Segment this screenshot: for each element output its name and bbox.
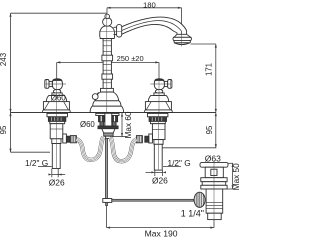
center stud left xyxy=(100,122,104,126)
dimension 180 left tick xyxy=(106,8,108,13)
faucet centerline xyxy=(106,13,108,112)
drain centerline xyxy=(213,161,215,221)
drain knurled knob xyxy=(194,192,205,207)
svg-text:180: 180 xyxy=(143,0,156,9)
drain knob knurl lines xyxy=(196,192,203,207)
dimension 250+-20 right leg xyxy=(158,62,160,78)
svg-text:Ø63: Ø63 xyxy=(205,153,221,163)
right handle neck band xyxy=(154,93,164,96)
drain locknut plate1 xyxy=(201,178,227,182)
right handle hub dark band xyxy=(155,79,164,81)
right handle base block xyxy=(145,102,171,110)
centerlines xyxy=(56,13,214,220)
dimension 95 right bottom extension xyxy=(158,147,217,149)
left valve body xyxy=(50,124,63,139)
left hose xyxy=(76,137,103,160)
drain body xyxy=(206,189,223,213)
left valve knurled nut xyxy=(48,117,65,122)
spout bell ring2 xyxy=(174,40,190,42)
svg-text:171: 171 xyxy=(204,63,213,76)
dimension Max190 right corner xyxy=(213,220,215,228)
left handle neck band xyxy=(52,93,62,96)
dimension 243 arrows xyxy=(9,13,11,112)
right valve hose nut xyxy=(136,136,142,143)
center dark band xyxy=(98,126,118,129)
left valve washer xyxy=(47,113,68,116)
dimension 180 line xyxy=(107,7,182,9)
left valve outlet dark fitting xyxy=(66,136,70,142)
left handle hub dark band xyxy=(53,79,62,81)
svg-text:95: 95 xyxy=(205,125,214,134)
spout socket xyxy=(117,25,122,37)
dimension 243 extension top xyxy=(11,12,107,14)
center stud right xyxy=(112,122,116,126)
right valve body line xyxy=(152,129,165,131)
drain upper body xyxy=(205,167,223,178)
dimension Max60 bottom extension xyxy=(112,136,127,138)
left handle hub xyxy=(52,79,62,90)
spout middle line xyxy=(122,21,182,35)
dimension 95 left line xyxy=(10,113,12,153)
label 1/2 G left leader xyxy=(38,166,52,168)
spout bell ring1 xyxy=(173,37,192,40)
left supply pipe xyxy=(52,144,60,169)
spout tip extension line xyxy=(191,43,216,45)
dimension Max50 line xyxy=(232,163,234,189)
faucet base tier1 dome xyxy=(95,92,119,101)
spout bell bottom xyxy=(174,43,190,45)
dimension O26 right line xyxy=(146,171,163,173)
faucet base tier2 xyxy=(93,101,121,106)
dimension 95 right line xyxy=(215,113,217,148)
right supply pipe xyxy=(154,144,162,170)
svg-text:Max 190: Max 190 xyxy=(145,228,178,238)
dimension 180 arrows xyxy=(107,7,182,9)
spout bell centerline xyxy=(181,32,183,47)
dimension Max50 arrows xyxy=(232,163,234,189)
spout lower wall xyxy=(122,24,177,34)
pop-up rod xyxy=(105,138,107,198)
dimension O26 right arrows xyxy=(151,171,166,173)
right valve outlet dark fitting xyxy=(145,136,149,142)
dimension 250+-20 arrows xyxy=(57,61,159,63)
pop-up rod stub xyxy=(106,202,108,205)
left handle base block xyxy=(43,102,69,110)
right valve washer xyxy=(147,113,168,116)
svg-text:Max 50: Max 50 xyxy=(232,163,241,190)
label 1/2 G right leader xyxy=(163,166,181,168)
dimension 250+-20 line xyxy=(57,61,159,63)
dimension O26 left extensions xyxy=(51,169,53,178)
dimension 250+-20 left leg xyxy=(56,62,58,78)
drain set screw xyxy=(211,169,217,175)
center stud nut right xyxy=(112,116,118,122)
left handle base top cone xyxy=(46,95,66,101)
center hose manifold xyxy=(104,133,113,136)
left handle centerline xyxy=(56,79,58,112)
right handle sphere xyxy=(155,89,162,93)
svg-text:Ø60: Ø60 xyxy=(51,94,67,103)
right handle base skirt xyxy=(144,110,172,113)
center mounting washer xyxy=(96,113,119,115)
left handle base cone lines xyxy=(44,102,68,110)
dimension Max60 line xyxy=(121,113,123,137)
faucet finial xyxy=(105,14,110,19)
left valve outlet hex xyxy=(63,134,67,143)
left handle left arm xyxy=(49,81,52,86)
svg-text:Ø26: Ø26 xyxy=(152,175,168,185)
right valve body xyxy=(152,124,165,140)
dimension 95 left arrows xyxy=(9,113,11,153)
dimension Max190 arrows xyxy=(107,227,215,229)
dimension Max50 bottom tick xyxy=(227,188,234,190)
right handle base top cone xyxy=(148,95,168,101)
faucet base flange xyxy=(101,88,114,92)
faucet upper ball xyxy=(103,18,112,27)
svg-text:Max 60: Max 60 xyxy=(124,111,133,138)
spout upper wall xyxy=(122,17,187,34)
left handle base skirt xyxy=(42,110,70,113)
svg-text:1 1/4": 1 1/4" xyxy=(181,209,204,219)
drain locknut plate3 xyxy=(201,185,227,189)
body horizontal centerline xyxy=(99,31,122,33)
left valve hose nut xyxy=(70,136,76,143)
svg-text:95: 95 xyxy=(0,125,8,134)
spout stub to socket xyxy=(114,27,117,34)
center shank tube xyxy=(105,113,112,128)
dimension O26 right extensions xyxy=(154,170,156,176)
drain flange xyxy=(200,162,228,167)
left valve lower nut xyxy=(52,139,61,144)
horizontal linkage rod xyxy=(112,199,194,201)
FAUCET BODY GROUP xyxy=(42,14,228,219)
drain body thread lines xyxy=(206,202,223,208)
svg-text:Ø60: Ø60 xyxy=(80,120,95,129)
svg-text:243: 243 xyxy=(0,52,8,66)
right valve centerline xyxy=(157,113,159,170)
svg-text:250 ±20: 250 ±20 xyxy=(117,54,144,63)
svg-text:Ø26: Ø26 xyxy=(49,177,65,187)
right handle right arm cap xyxy=(168,80,172,89)
right valve lower nut xyxy=(154,140,163,145)
right handle hub cross lines xyxy=(150,83,171,85)
spout bell flare xyxy=(174,34,191,37)
left valve disc xyxy=(50,121,65,123)
dimension 243 line xyxy=(10,13,12,112)
dimension Max190 line xyxy=(107,227,215,229)
pop-up rod clevis xyxy=(103,199,112,203)
left handle left arm cap xyxy=(45,80,49,89)
right valve knurled nut xyxy=(149,117,166,122)
faucet column ring bulge 1 xyxy=(102,55,113,61)
center trapezoid connector xyxy=(102,129,115,133)
dimension Max50 top tick xyxy=(228,162,234,164)
dimension Max190 left extension xyxy=(106,206,108,228)
center manifold tip xyxy=(105,136,111,138)
left valve body line xyxy=(50,128,63,130)
right hose xyxy=(111,137,137,161)
left handle hub cross lines xyxy=(46,83,67,85)
dimension 95 left bottom extension xyxy=(11,151,51,153)
spout outline fill xyxy=(122,17,187,34)
right handle hub xyxy=(154,79,164,90)
dimension 180 right extension xyxy=(181,8,183,33)
dimension O26 left line xyxy=(52,174,65,176)
dimension Max60 arrows xyxy=(121,113,123,137)
faucet column xyxy=(103,39,111,89)
right valve outlet hex xyxy=(149,134,153,143)
dimension 95 right arrows xyxy=(215,113,217,148)
drain tailpiece xyxy=(208,213,222,219)
lift rod knob xyxy=(92,94,98,100)
dimension 171 line xyxy=(215,44,217,113)
right handle base cone lines xyxy=(146,102,170,110)
dimension O26 left arrows xyxy=(48,174,61,176)
center stud nut left xyxy=(99,116,105,122)
right handle centerline xyxy=(158,79,160,112)
dimension 171 arrows xyxy=(215,44,217,113)
faucet column ring bulge 2 xyxy=(102,74,113,79)
faucet column rings xyxy=(103,41,111,83)
right valve disc xyxy=(150,121,165,123)
faucet body sphere xyxy=(100,26,115,39)
left valve centerline xyxy=(55,113,57,168)
faucet base tier3 skirt xyxy=(90,106,124,112)
left handle sphere xyxy=(53,89,60,93)
right handle right arm xyxy=(164,81,167,86)
countertop line xyxy=(11,112,216,114)
drain locknut plate2 xyxy=(202,182,226,186)
center nut notches xyxy=(101,116,114,122)
